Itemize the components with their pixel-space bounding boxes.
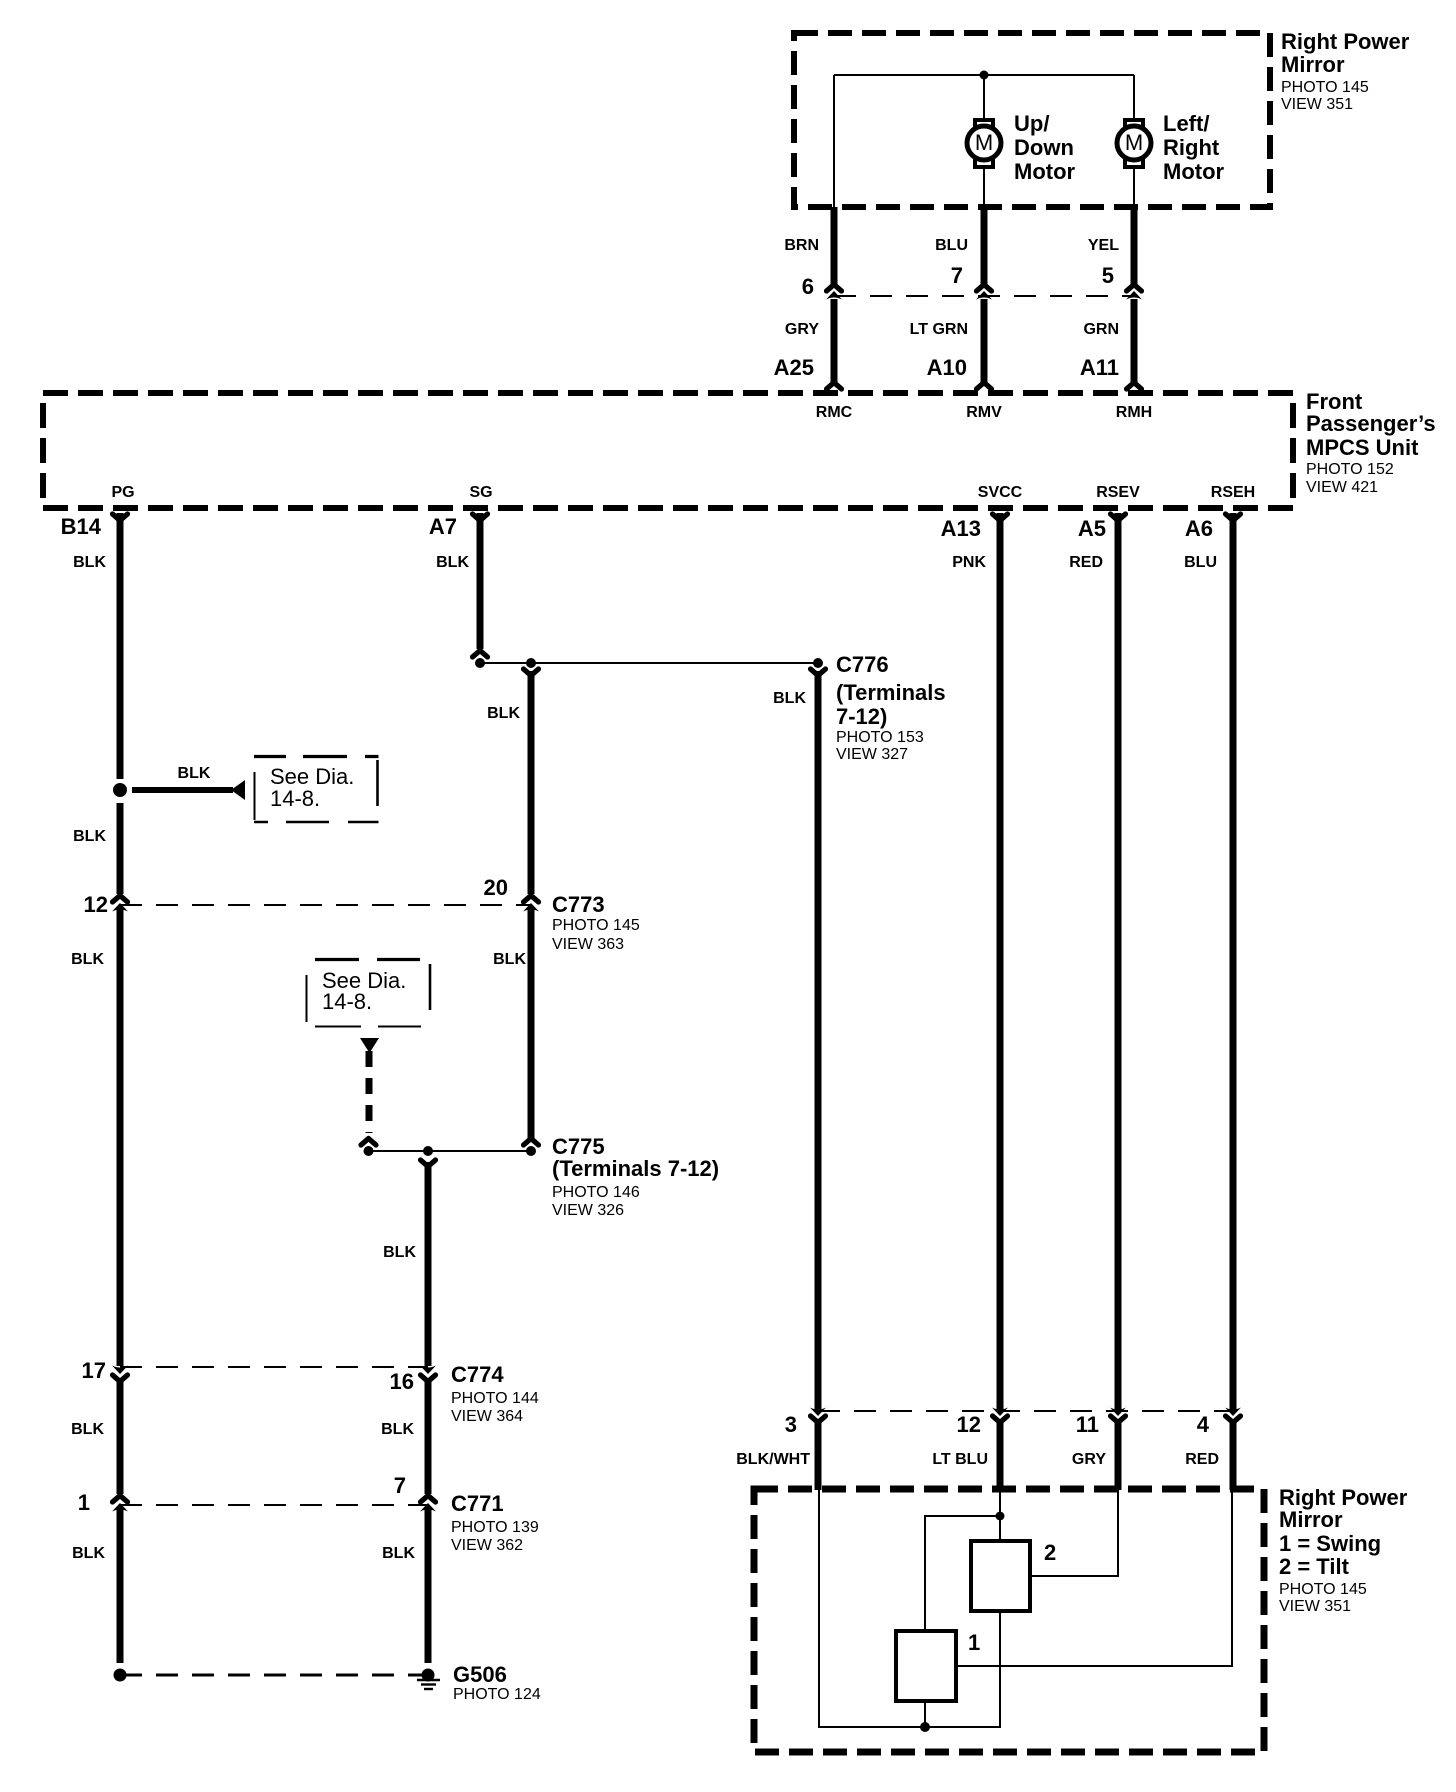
svg-text:PHOTO 139: PHOTO 139 xyxy=(451,1519,539,1536)
label: C776 (Terminals 7-12) xyxy=(836,652,946,763)
svg-text:C773: C773 xyxy=(552,892,605,917)
svg-text:Motor: Motor xyxy=(1014,159,1076,184)
svg-text:11: 11 xyxy=(1076,1412,1099,1437)
svg-text:LT BLU: LT BLU xyxy=(932,1451,988,1468)
svg-text:(Terminals: (Terminals xyxy=(836,680,946,705)
svg-text:Motor: Motor xyxy=(1163,159,1225,184)
svg-text:YEL: YEL xyxy=(1088,237,1119,254)
svg-text:7: 7 xyxy=(394,1473,406,1498)
svg-text:BLK: BLK xyxy=(73,554,106,571)
node: junction B14 wire / stub xyxy=(113,783,127,797)
svg-text:GRY: GRY xyxy=(1072,1451,1106,1468)
wire: up/down motor leads xyxy=(983,75,985,207)
svg-text:PHOTO 124: PHOTO 124 xyxy=(453,1686,541,1703)
svg-text:1 = Swing: 1 = Swing xyxy=(1279,1531,1381,1556)
label: C773 xyxy=(552,892,640,953)
label: G506 xyxy=(453,1662,541,1703)
connector halves at pin 7b xyxy=(420,1496,436,1512)
svg-text:SVCC: SVCC xyxy=(978,484,1023,501)
svg-text:PHOTO 145: PHOTO 145 xyxy=(1279,1581,1367,1598)
svg-text:VIEW 351: VIEW 351 xyxy=(1279,1598,1351,1615)
wire: BLK wire to mirror pin 3 xyxy=(815,671,822,1490)
wire: BLK wire to C773 pin 20 xyxy=(528,671,535,1139)
svg-text:16: 16 xyxy=(390,1369,414,1394)
label: Right Power Mirror (bottom) xyxy=(1279,1485,1408,1615)
connector halves at pin 3 xyxy=(810,1408,826,1423)
label: Up/Down Motor xyxy=(1014,111,1076,184)
connector halves at pin 16 xyxy=(420,1366,436,1382)
svg-text:2: 2 xyxy=(1044,1540,1056,1565)
svg-text:RED: RED xyxy=(1069,554,1103,571)
label: C771 xyxy=(451,1491,539,1554)
enclosure: Right Power Mirror (top) xyxy=(794,33,1270,207)
node: dot C775 left xyxy=(364,1146,374,1156)
svg-text:6: 6 xyxy=(802,274,814,299)
svg-text:M: M xyxy=(975,130,993,155)
svg-text:GRY: GRY xyxy=(785,321,819,338)
connector halves at pin 12b xyxy=(992,1408,1008,1423)
label: C775 (Terminals 7-12) xyxy=(552,1134,719,1219)
connector C773 dashed link xyxy=(120,904,531,906)
svg-text:Mirror: Mirror xyxy=(1281,52,1345,77)
svg-text:C776: C776 xyxy=(836,652,889,677)
connector exit B14 xyxy=(113,514,128,521)
wire: BRN/GRY mirror common xyxy=(831,207,838,382)
sensor 1 (swing) xyxy=(896,1631,956,1701)
svg-text:12: 12 xyxy=(84,892,108,917)
connector start wire 428 xyxy=(421,1160,436,1167)
svg-text:PHOTO 144: PHOTO 144 xyxy=(451,1390,539,1407)
wire: thin jumper A7 to C776 xyxy=(480,662,818,664)
svg-text:BLK: BLK xyxy=(773,690,806,707)
connector entry A25 xyxy=(827,383,842,390)
wire: A7 BLK wire xyxy=(477,513,484,649)
reference box: See Dia. 14-8. (lower) xyxy=(307,960,431,1027)
svg-text:Mirror: Mirror xyxy=(1279,1507,1343,1532)
connector exit A13 xyxy=(993,514,1008,521)
svg-text:A11: A11 xyxy=(1080,355,1119,380)
svg-text:A6: A6 xyxy=(1185,516,1213,541)
svg-text:PHOTO 152: PHOTO 152 xyxy=(1306,461,1394,478)
svg-text:14-8.: 14-8. xyxy=(322,989,372,1014)
node: dot C775 right xyxy=(526,1146,536,1156)
svg-text:20: 20 xyxy=(484,875,508,900)
arrow from See Dia. (lower) xyxy=(360,1038,379,1053)
wire: BLK wire to G506 xyxy=(425,1162,432,1663)
wire: thin jumper C775 xyxy=(368,1150,531,1152)
svg-text:RMH: RMH xyxy=(1116,404,1152,421)
svg-text:PNK: PNK xyxy=(952,554,986,571)
svg-text:RED: RED xyxy=(1185,1451,1219,1468)
connector halves at pin 11 xyxy=(1110,1408,1126,1423)
node: dot pin12 junction xyxy=(996,1512,1005,1521)
reference box: See Dia. 14-8. (upper) xyxy=(254,757,379,823)
wire: pin 3 internal xyxy=(819,1489,1000,1727)
svg-text:A10: A10 xyxy=(927,355,967,380)
svg-text:A13: A13 xyxy=(941,516,981,541)
wire: RSEH BLU wire xyxy=(1230,513,1237,1490)
connector halves at pin 7 xyxy=(976,285,992,300)
motor M1 up/down xyxy=(967,120,1001,167)
svg-text:BLK: BLK xyxy=(487,705,520,722)
connector entry A10 xyxy=(977,383,992,390)
svg-text:Up/: Up/ xyxy=(1014,111,1049,136)
wire: sensor 1 bottom xyxy=(924,1701,926,1727)
svg-text:C774: C774 xyxy=(451,1362,504,1387)
wire: internal bus in top mirror box xyxy=(834,75,1134,207)
svg-text:BLK: BLK xyxy=(71,1421,104,1438)
connector exit A7 xyxy=(473,514,488,521)
svg-text:LT GRN: LT GRN xyxy=(910,321,968,338)
svg-text:VIEW 362: VIEW 362 xyxy=(451,1537,523,1554)
svg-text:G506: G506 xyxy=(453,1662,507,1687)
svg-text:BLU: BLU xyxy=(935,237,968,254)
wire: thick dashed from See Dia. xyxy=(366,1051,373,1133)
label: Left/Right Motor xyxy=(1163,111,1225,184)
svg-text:Right Power: Right Power xyxy=(1281,29,1410,54)
label: Right Power Mirror (top) xyxy=(1281,29,1410,113)
connector exit A6 xyxy=(1226,514,1241,521)
svg-text:Left/: Left/ xyxy=(1163,111,1209,136)
svg-text:MPCS Unit: MPCS Unit xyxy=(1306,435,1419,460)
wire: sensor 1 to pin 4 xyxy=(956,1489,1232,1666)
svg-text:PG: PG xyxy=(111,484,134,501)
connector exit A5 xyxy=(1111,514,1126,521)
svg-text:A5: A5 xyxy=(1078,516,1106,541)
connector end of dashed wire xyxy=(361,1139,376,1146)
node: dot at A7 jumper left xyxy=(475,658,485,668)
node: dot bottom junction xyxy=(920,1722,930,1732)
svg-text:2 = Tilt: 2 = Tilt xyxy=(1279,1554,1350,1579)
connector row 3/12/11/4 dashed link xyxy=(818,1410,1233,1412)
svg-text:1: 1 xyxy=(968,1630,980,1655)
node: G506 right terminal xyxy=(422,1669,435,1682)
svg-text:BLK: BLK xyxy=(493,951,526,968)
svg-text:Passenger’s: Passenger’s xyxy=(1306,411,1436,436)
svg-text:VIEW 351: VIEW 351 xyxy=(1281,96,1353,113)
svg-text:C771: C771 xyxy=(451,1491,504,1516)
node: dot at 531 xyxy=(526,658,536,668)
svg-text:B14: B14 xyxy=(61,514,102,539)
svg-text:BLK: BLK xyxy=(382,1545,415,1562)
svg-text:BLK: BLK xyxy=(73,828,106,845)
svg-text:BLK: BLK xyxy=(71,951,104,968)
enclosure: Front Passenger's MPCS Unit xyxy=(43,393,1293,508)
svg-text:RSEH: RSEH xyxy=(1211,484,1255,501)
svg-text:4: 4 xyxy=(1197,1412,1210,1437)
node: dot C775 mid xyxy=(423,1146,433,1156)
svg-text:14-8.: 14-8. xyxy=(270,786,320,811)
wire: B14 BLK ground wire xyxy=(117,513,124,1663)
svg-text:RMV: RMV xyxy=(966,404,1002,421)
svg-text:3: 3 xyxy=(785,1412,797,1437)
svg-text:VIEW 326: VIEW 326 xyxy=(552,1202,624,1219)
svg-text:BLK/WHT: BLK/WHT xyxy=(736,1451,810,1468)
node: G506 left terminal xyxy=(114,1669,127,1682)
svg-text:7-12): 7-12) xyxy=(836,704,887,729)
svg-text:SG: SG xyxy=(469,484,492,501)
connector halves at pin 20 xyxy=(523,896,539,912)
motor M2 left/right xyxy=(1117,120,1151,167)
svg-text:(Terminals 7-12): (Terminals 7-12) xyxy=(552,1156,719,1181)
svg-text:BLK: BLK xyxy=(72,1545,105,1562)
connector start of 531 wire xyxy=(524,669,539,676)
svg-text:12: 12 xyxy=(957,1412,981,1437)
svg-text:7: 7 xyxy=(951,263,963,288)
label: C774 xyxy=(451,1362,539,1425)
svg-text:BRN: BRN xyxy=(784,237,819,254)
connector halves at pin 17 xyxy=(112,1366,128,1382)
svg-text:BLK: BLK xyxy=(381,1421,414,1438)
svg-text:VIEW 421: VIEW 421 xyxy=(1306,479,1378,496)
svg-text:VIEW 363: VIEW 363 xyxy=(552,936,624,953)
wire: SVCC PNK wire xyxy=(997,513,1004,1490)
connector halves at pin 12 xyxy=(112,896,128,912)
svg-text:BLK: BLK xyxy=(178,765,211,782)
connector halves at pin 4 xyxy=(1225,1408,1241,1423)
connector C774 dashed link xyxy=(120,1366,428,1368)
connector row pins 6/7/5 dashed link xyxy=(834,295,1134,297)
svg-text:RMC: RMC xyxy=(816,404,853,421)
ground: G506 xyxy=(417,1680,440,1689)
connector halves at pin 6 xyxy=(826,285,842,300)
svg-text:PHOTO 145: PHOTO 145 xyxy=(1281,79,1369,96)
wire: G506 dashed link xyxy=(120,1674,428,1677)
svg-text:BLK: BLK xyxy=(383,1244,416,1261)
node: dot at C776 xyxy=(813,658,823,668)
wire: left/right motor leads xyxy=(1133,75,1135,207)
wire: RSEV RED wire xyxy=(1115,513,1122,1490)
wire: stub to See Dia. 14-8. (upper) xyxy=(132,780,245,800)
svg-text:A7: A7 xyxy=(429,514,457,539)
connector end of 531 wire xyxy=(524,1139,539,1146)
sensor 2 (tilt) xyxy=(971,1541,1030,1611)
svg-text:RSEV: RSEV xyxy=(1096,484,1140,501)
connector start of C776 wire xyxy=(811,669,826,676)
wire: YEL/GRN horizontal xyxy=(1131,207,1138,382)
svg-text:A25: A25 xyxy=(774,355,814,380)
svg-text:17: 17 xyxy=(82,1358,106,1383)
svg-text:PHOTO 145: PHOTO 145 xyxy=(552,917,640,934)
wire: BLU/LT GRN vertical xyxy=(981,207,988,382)
svg-text:PHOTO 146: PHOTO 146 xyxy=(552,1184,640,1201)
connector halves at pin 1 xyxy=(112,1496,128,1512)
svg-text:GRN: GRN xyxy=(1083,321,1119,338)
connector C771 dashed link xyxy=(120,1504,428,1506)
enclosure: Right Power Mirror (bottom) xyxy=(754,1489,1264,1752)
wire: pin 12 internal xyxy=(925,1489,1000,1631)
svg-text:Right: Right xyxy=(1163,135,1220,160)
svg-text:BLK: BLK xyxy=(436,554,469,571)
svg-text:PHOTO 153: PHOTO 153 xyxy=(836,729,924,746)
svg-text:M: M xyxy=(1125,130,1143,155)
node: junction on bus xyxy=(980,71,989,80)
svg-text:BLU: BLU xyxy=(1184,554,1217,571)
svg-text:VIEW 364: VIEW 364 xyxy=(451,1408,523,1425)
connector halves at pin 5 xyxy=(1126,285,1142,300)
svg-text:Down: Down xyxy=(1014,135,1074,160)
label: Front Passenger's MPCS Unit xyxy=(1306,389,1436,496)
connector end of A7 wire xyxy=(473,651,488,658)
svg-text:VIEW 327: VIEW 327 xyxy=(836,746,908,763)
svg-text:5: 5 xyxy=(1102,263,1114,288)
svg-text:1: 1 xyxy=(78,1490,90,1515)
connector entry A11 xyxy=(1127,383,1142,390)
wire: sensor 2 to pin 11 xyxy=(1030,1489,1118,1576)
